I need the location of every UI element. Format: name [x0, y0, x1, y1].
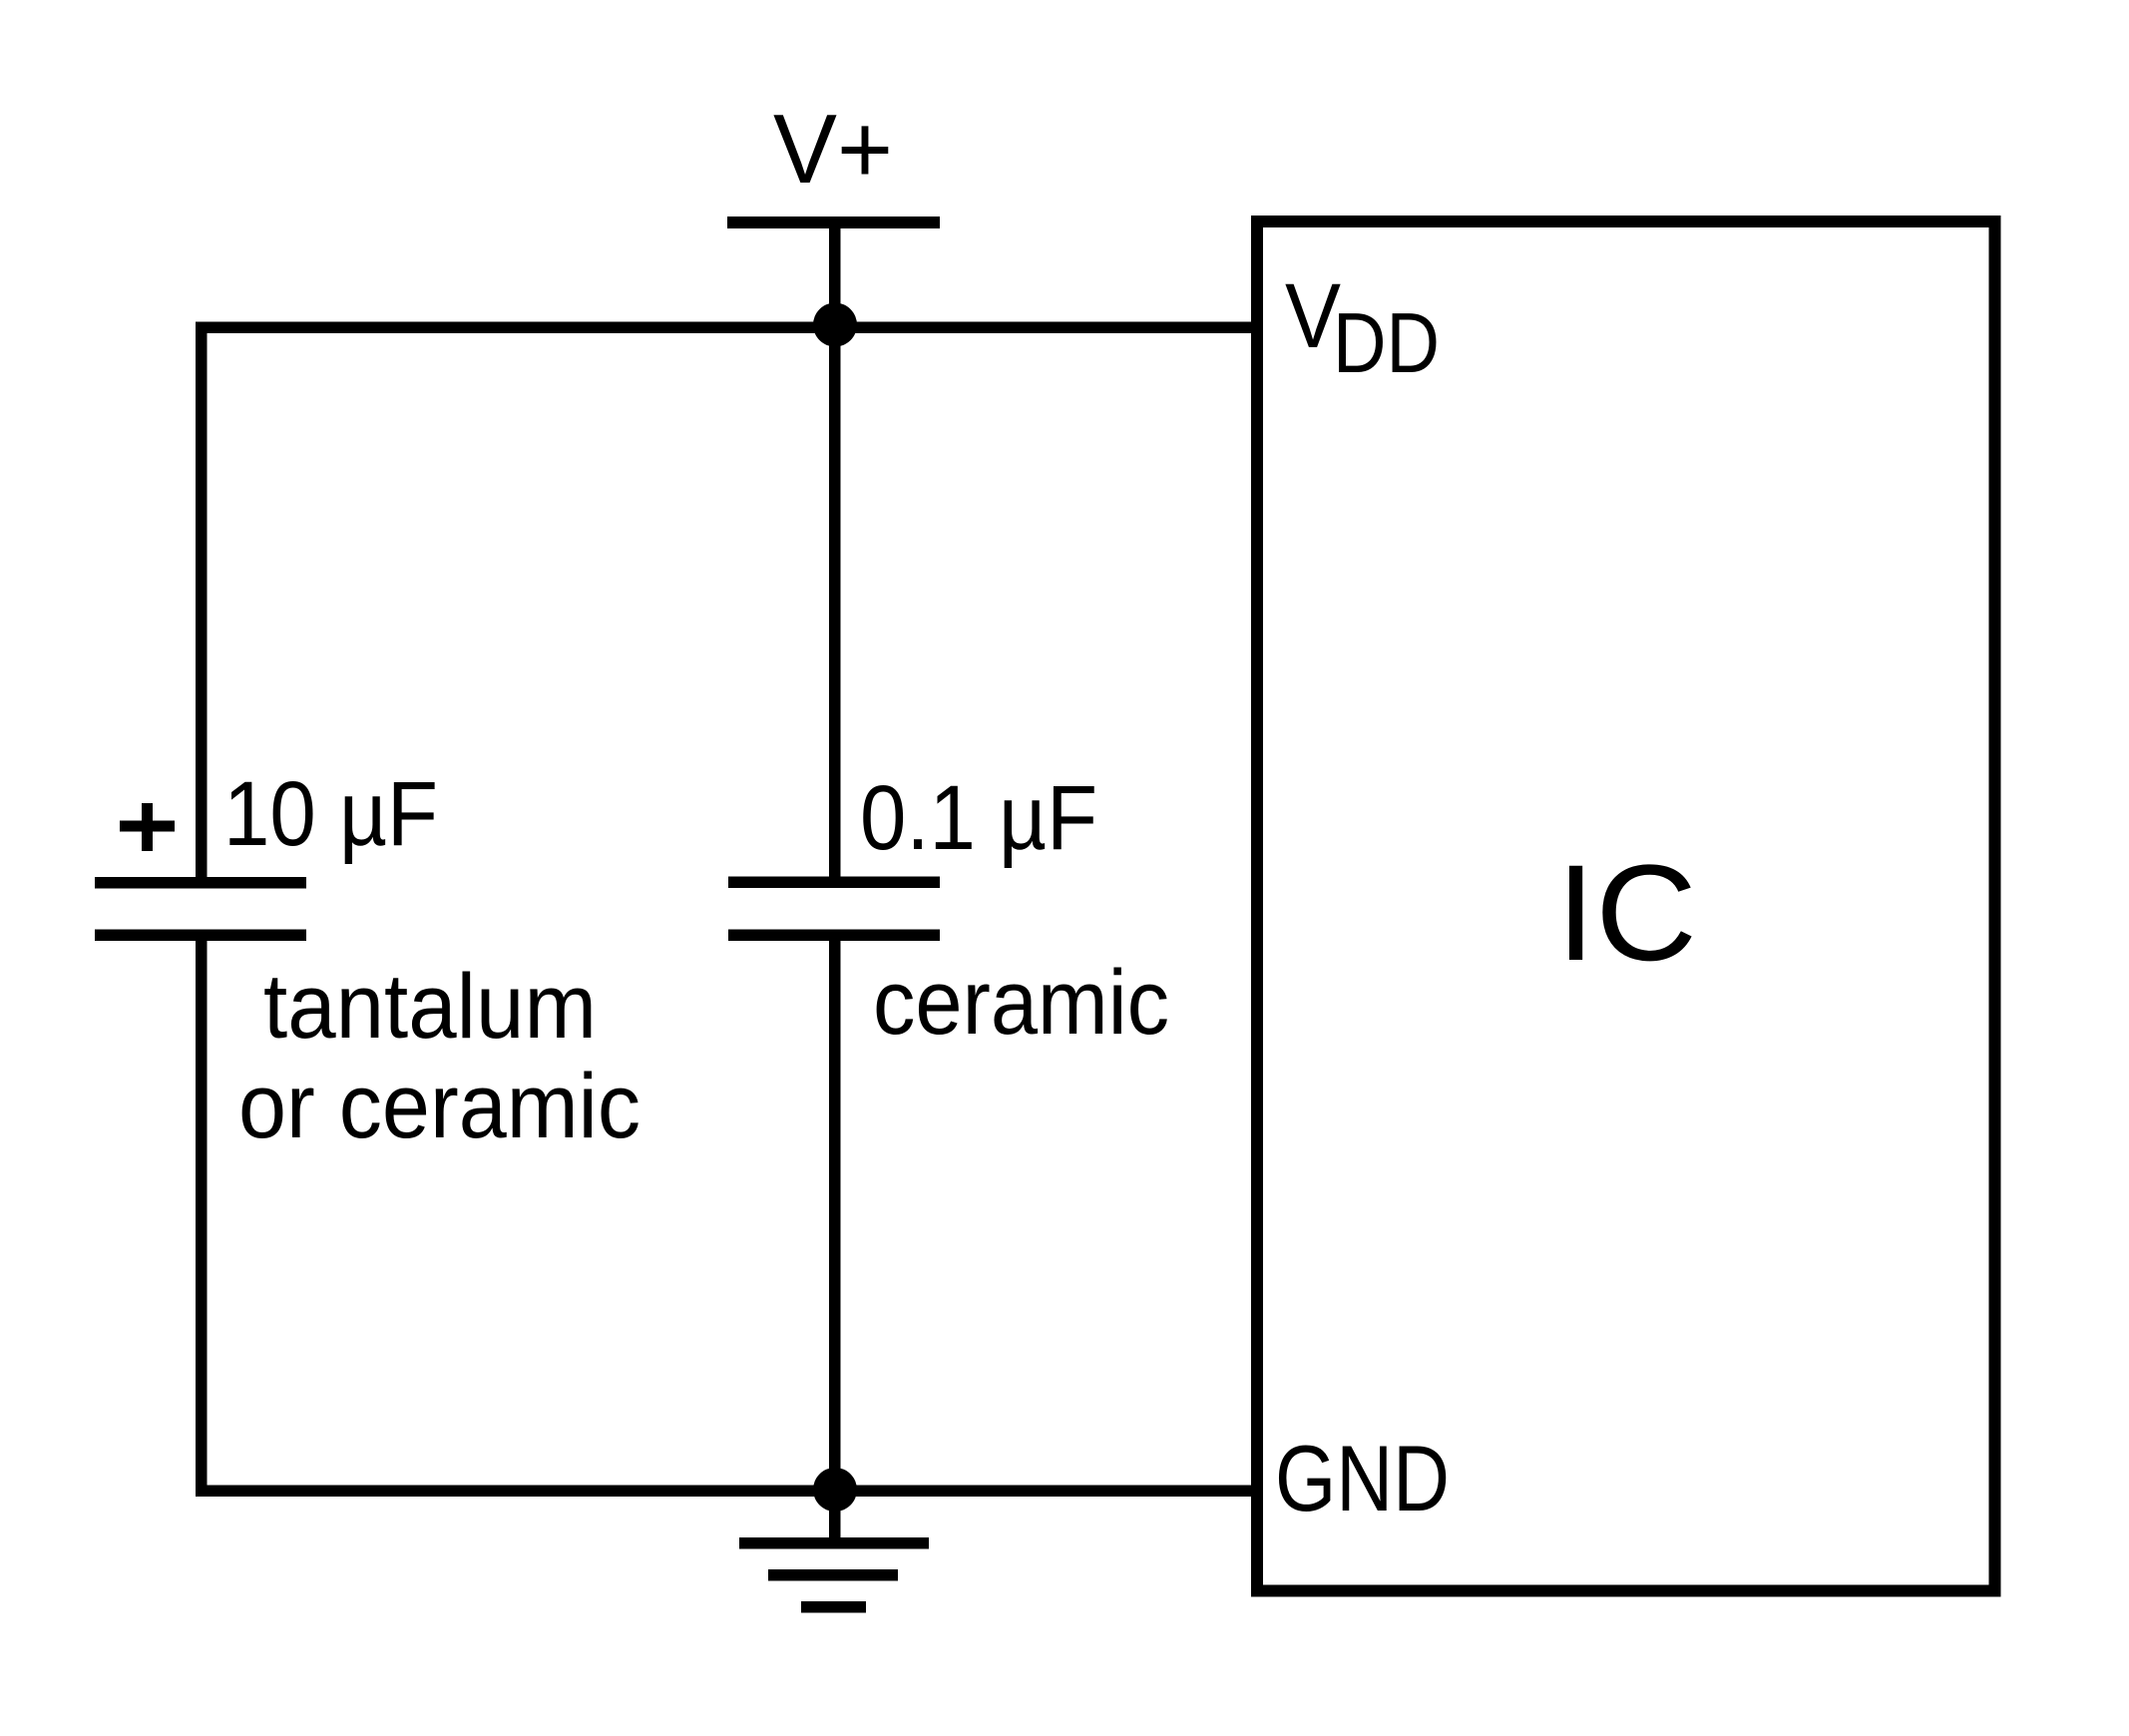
- wire center stem from node A down to capacitor C2: [829, 326, 841, 877]
- node A junction dot (VDD net): [813, 303, 857, 347]
- ground stub wire: [829, 1490, 841, 1539]
- capacitor C1 top plate: [95, 877, 306, 889]
- wire bottom rail from left corner to IC GND pin: [196, 1486, 1263, 1498]
- wire C2 bottom lead down to bottom rail: [829, 941, 841, 1491]
- svg-text:0.1 µF: 0.1 µF: [860, 767, 1097, 869]
- capacitor C2 top plate: [728, 877, 940, 889]
- wire left rail down to capacitor C1: [196, 322, 208, 878]
- wire C1 bottom lead down to bottom rail: [196, 941, 208, 1491]
- capacitor C2 bottom plate: [728, 930, 940, 942]
- wire top rail from left corner to IC VDD pin: [196, 322, 1263, 334]
- ground bar 1: [739, 1537, 929, 1549]
- svg-text:tantalum: tantalum: [263, 956, 597, 1058]
- svg-text:DD: DD: [1333, 296, 1440, 391]
- ground bar 3: [801, 1601, 866, 1613]
- node B junction dot (GND net): [813, 1468, 857, 1512]
- capacitor C1 bottom plate: [95, 930, 306, 942]
- svg-text:10 µF: 10 µF: [223, 763, 438, 865]
- svg-text:ceramic: ceramic: [873, 952, 1169, 1054]
- svg-text:IC: IC: [1556, 837, 1697, 990]
- op IC U1 box: [1257, 221, 1995, 1591]
- capacitor C1 polarity + mark: [120, 821, 175, 832]
- svg-text:GND: GND: [1275, 1426, 1450, 1530]
- power symbol V+ bar: [727, 217, 940, 228]
- svg-text:or ceramic: or ceramic: [238, 1056, 640, 1157]
- svg-text:V+: V+: [773, 94, 893, 204]
- wire V+ stem down to node A: [829, 224, 841, 334]
- ground bar 2: [768, 1569, 898, 1581]
